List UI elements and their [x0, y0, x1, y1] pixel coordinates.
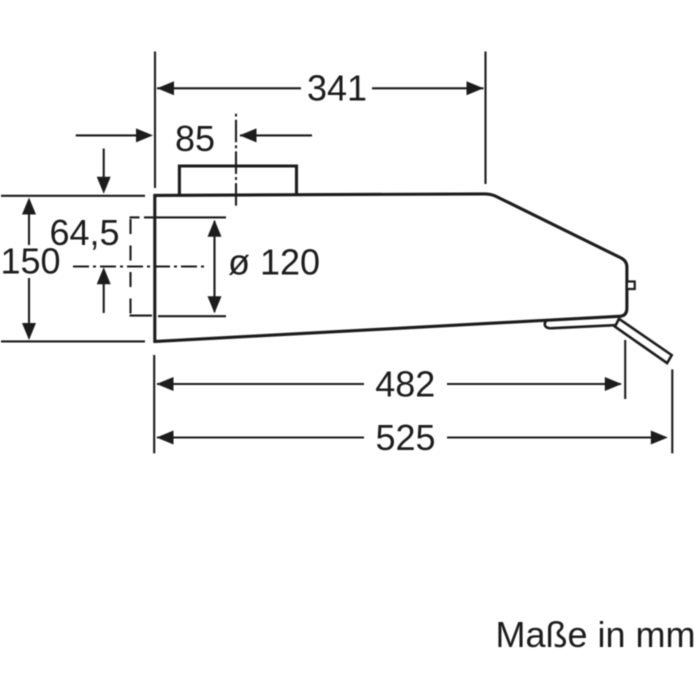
svg-text:150: 150 [0, 241, 60, 282]
svg-text:525: 525 [375, 417, 435, 458]
svg-text:ø 120: ø 120 [228, 242, 320, 283]
svg-text:Maße in mm: Maße in mm [496, 614, 696, 655]
svg-text:482: 482 [375, 364, 435, 405]
svg-text:85: 85 [175, 118, 215, 159]
svg-text:341: 341 [307, 68, 367, 109]
